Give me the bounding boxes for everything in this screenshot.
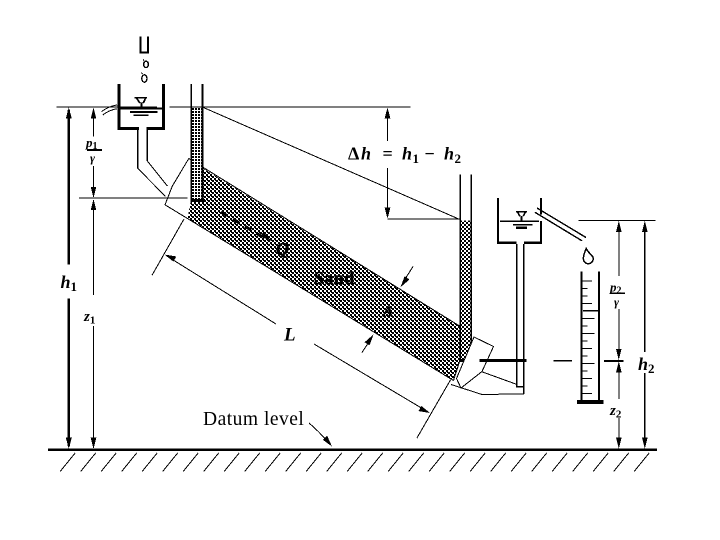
area arrow upper: [401, 267, 414, 288]
supply faucet: [140, 36, 148, 52]
label p2/gamma: [609, 280, 625, 310]
svg-text:L: L: [283, 325, 296, 346]
z2 dimension line: [616, 361, 622, 448]
Q dashed flow arrow: [221, 212, 263, 237]
h2 dimension line: [642, 221, 648, 449]
outflow stand pipe: [516, 244, 525, 394]
measuring cylinder: [577, 272, 603, 405]
svg-text:Q: Q: [276, 239, 289, 259]
L extension line right: [417, 380, 451, 438]
z1 dimension line: [91, 199, 97, 449]
level-2 line under dh arrow: [387, 218, 459, 220]
datum line: [48, 449, 657, 451]
overflow stream: [102, 105, 118, 115]
ground hatching: [60, 453, 649, 472]
inlet level line: [79, 197, 187, 199]
water drop 2: [142, 75, 147, 82]
outlet level dash left of cylinder: [553, 360, 572, 362]
sand column band outline: [165, 159, 460, 381]
outlet level thick line: [480, 359, 527, 362]
L dimension line: [165, 255, 430, 413]
water drop 1: [144, 61, 149, 67]
L extension line left: [152, 219, 184, 275]
svg-text:Δh=h1−h2: Δh=h1−h2: [348, 144, 461, 167]
right reference line (water level 2): [579, 219, 656, 221]
svg-text:A: A: [382, 304, 393, 320]
hydraulic grade line: [203, 107, 460, 219]
svg-text:γ: γ: [90, 151, 95, 165]
top reference line (water level 1): [57, 106, 411, 108]
label p1/gamma: [85, 135, 102, 165]
outflow spout: [535, 208, 586, 241]
dh dimension line: [385, 107, 391, 218]
falling drop: [583, 249, 593, 264]
p1/gamma dimension line: [91, 107, 97, 198]
svg-text:γ: γ: [614, 295, 619, 309]
svg-text:Sand: Sand: [314, 268, 355, 288]
p2/gamma dimension line: [616, 221, 622, 360]
sand column band fill: [188, 161, 461, 381]
svg-text:Datum level: Datum level: [203, 409, 304, 430]
supply tank: [117, 84, 164, 130]
outlet level dash at p2 dimension: [604, 360, 623, 362]
water surface symbol tank 1: [135, 98, 148, 104]
outlet end cap: [457, 337, 494, 388]
piezometer tube 1: [191, 84, 206, 202]
h1 dimension line: [66, 107, 72, 448]
outflow tank: [497, 198, 542, 244]
water surface symbol tank 2: [516, 212, 527, 217]
area arrow lower: [362, 335, 374, 353]
piezometer tube 2: [459, 175, 472, 362]
inlet pipe from tank: [138, 130, 168, 197]
datum pointer arrow: [309, 423, 332, 447]
outlet pipe: [451, 372, 517, 395]
